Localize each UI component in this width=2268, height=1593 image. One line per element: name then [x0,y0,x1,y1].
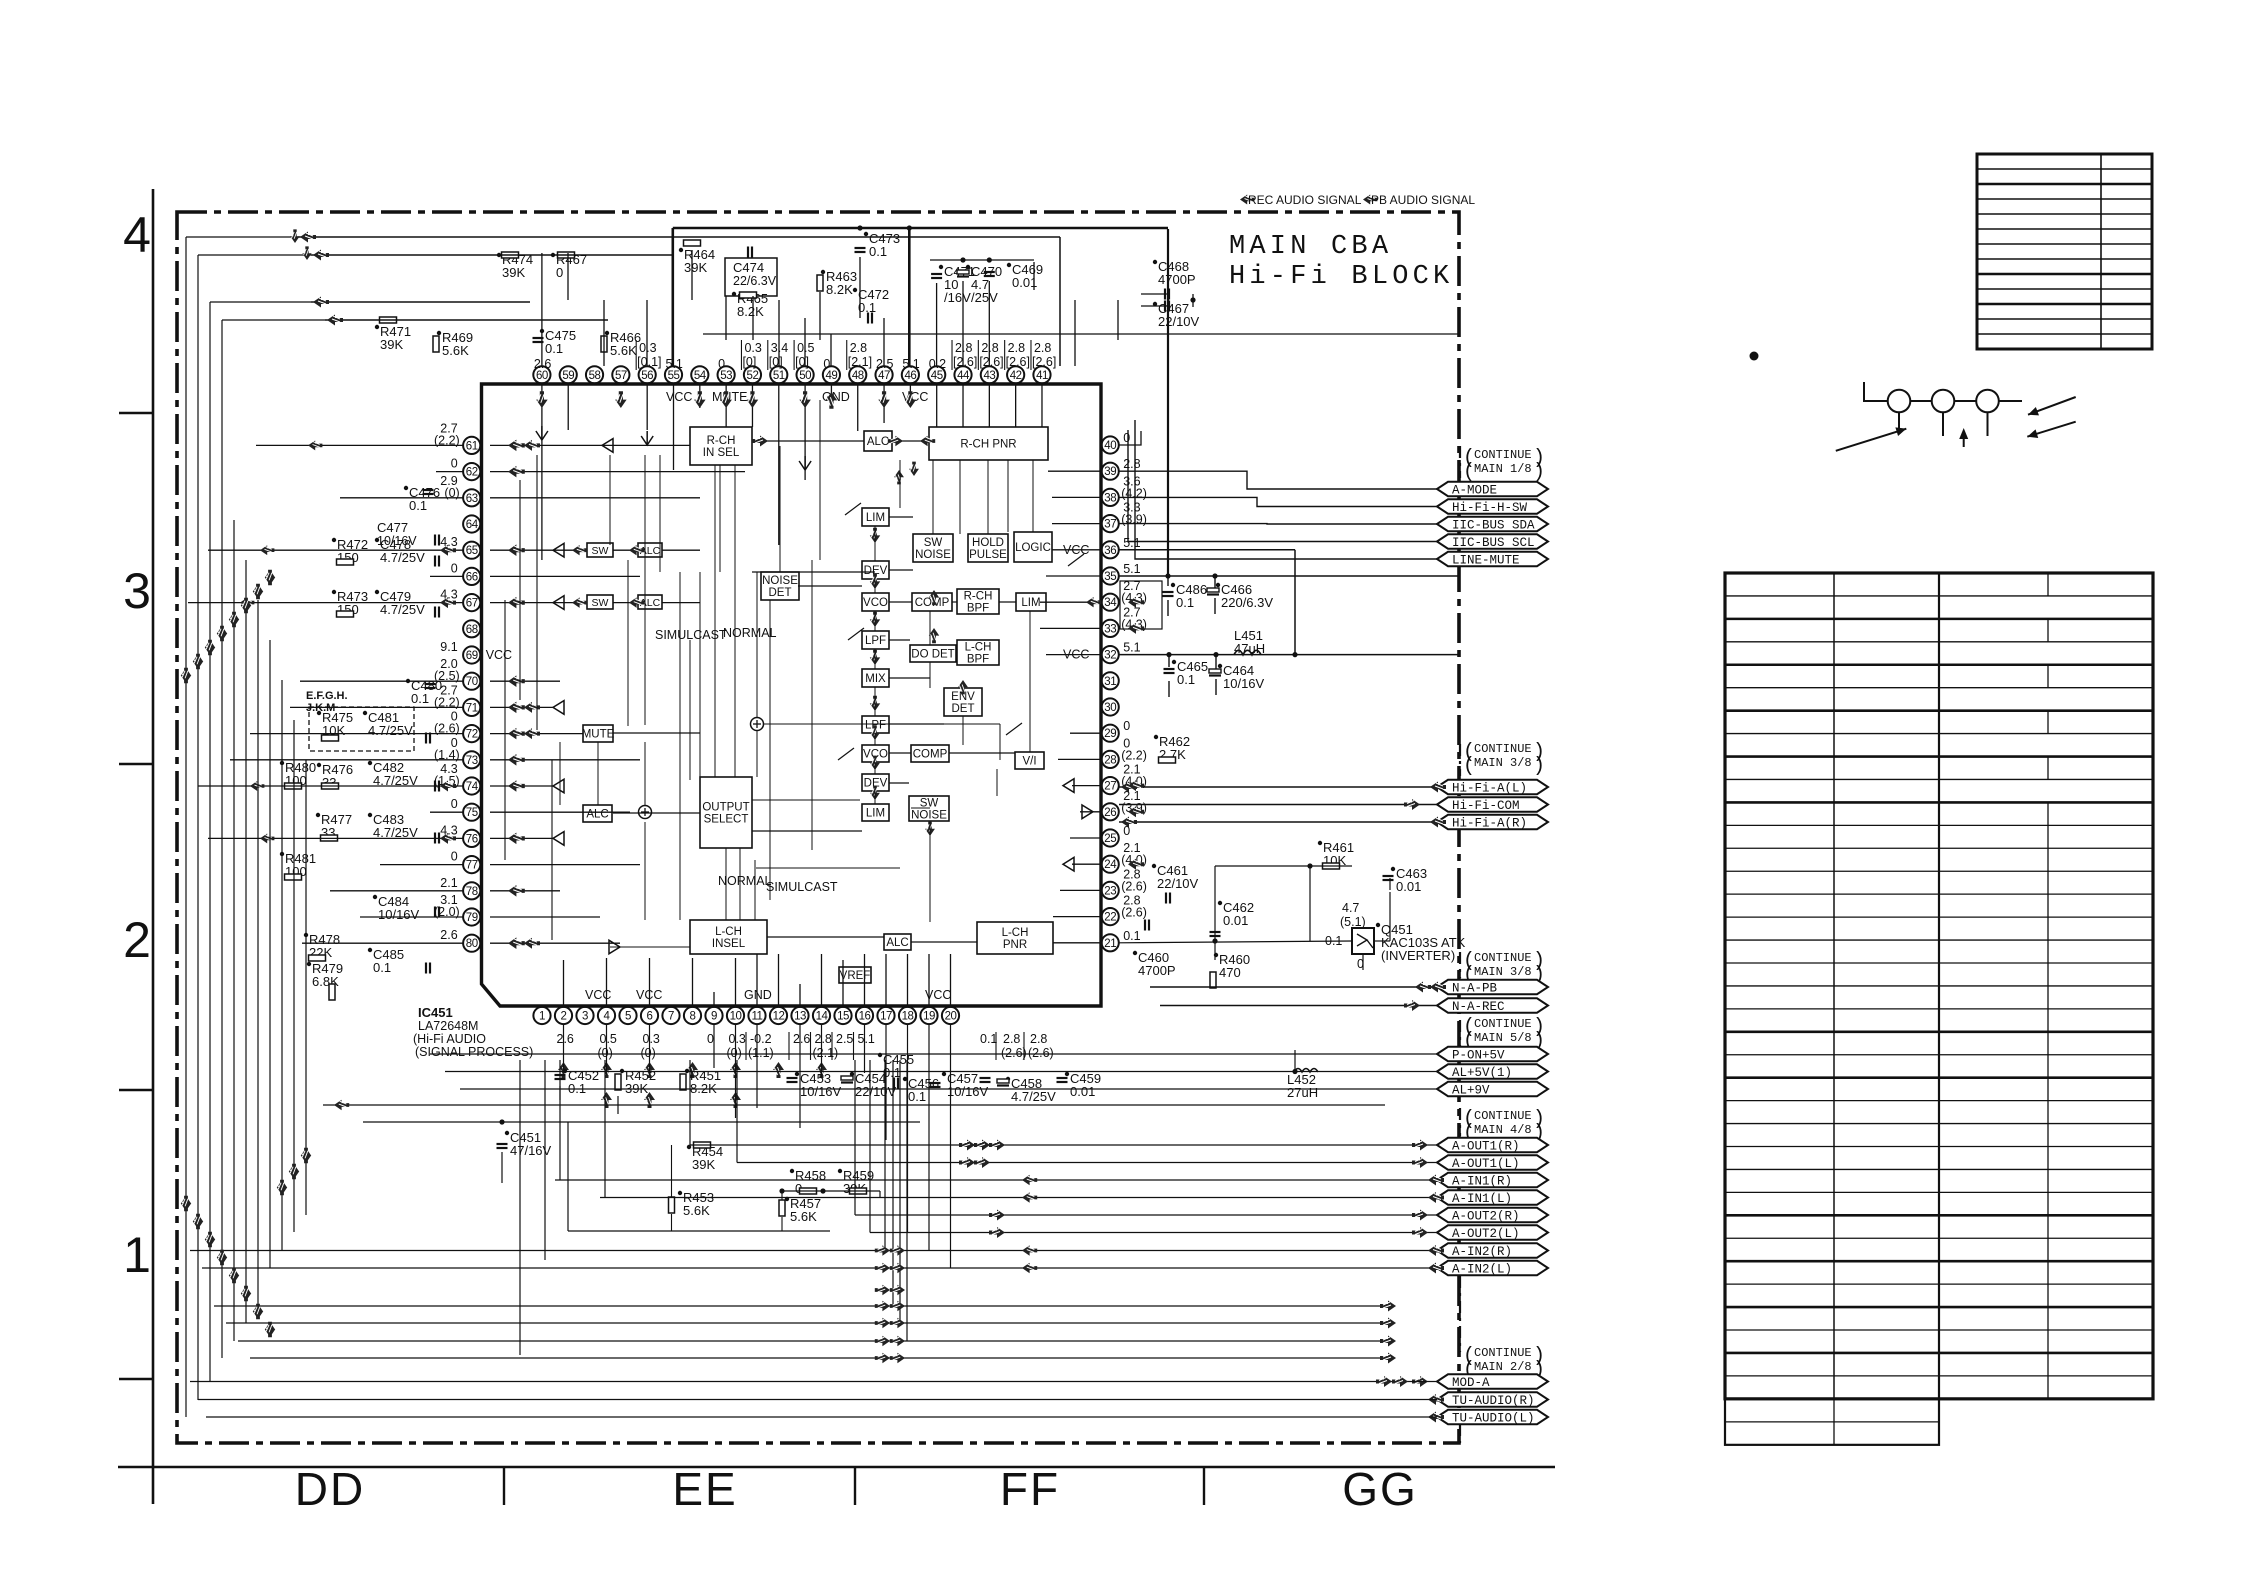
svg-text:0.01: 0.01 [1223,913,1248,928]
svg-text:A-IN2(L): A-IN2(L) [1452,1262,1512,1276]
svg-text:A-OUT2(L): A-OUT2(L) [1452,1227,1520,1241]
svg-text:GND: GND [822,390,850,404]
svg-text:(2.6): (2.6) [1028,1046,1054,1060]
svg-text:(0): (0) [641,1046,656,1060]
svg-text:Hi-Fi-A(R): Hi-Fi-A(R) [1452,816,1527,830]
svg-text:(2.1): (2.1) [813,1046,839,1060]
svg-text:CONTINUE: CONTINUE [1474,1017,1532,1031]
svg-text:L-CH: L-CH [1002,927,1029,939]
svg-text:(2.6): (2.6) [1001,1046,1027,1060]
svg-text:21: 21 [1104,938,1116,950]
svg-text:(INVERTER): (INVERTER) [1381,948,1455,963]
svg-text:0.1: 0.1 [411,691,429,706]
svg-text:35: 35 [1104,571,1116,583]
svg-text:(0): (0) [727,1046,742,1060]
svg-text:R-CH PNR: R-CH PNR [960,439,1016,451]
svg-text:): ) [1533,461,1545,484]
svg-text:13: 13 [794,1011,806,1023]
svg-text:40: 40 [1104,440,1116,452]
svg-text:0.1: 0.1 [1176,595,1194,610]
svg-text:14: 14 [816,1011,829,1023]
svg-text:DD: DD [295,1463,365,1515]
svg-text:OUTPUT: OUTPUT [702,802,749,814]
svg-text:4.7/25V: 4.7/25V [380,550,425,565]
svg-text:A-MODE: A-MODE [1452,483,1497,497]
svg-text:63: 63 [466,493,478,505]
svg-text:LPF: LPF [865,635,886,647]
svg-text:38: 38 [1104,492,1116,504]
svg-text:19: 19 [923,1011,935,1023]
svg-text:2.5: 2.5 [836,1032,853,1046]
svg-text:L-CH: L-CH [715,926,742,938]
svg-text:5.6K: 5.6K [442,343,469,358]
svg-text:62: 62 [466,467,478,479]
svg-text:IIC-BUS SDA: IIC-BUS SDA [1452,518,1535,532]
svg-text:2.6: 2.6 [793,1032,810,1046]
svg-text:4.7/25V: 4.7/25V [368,723,413,738]
svg-text:54: 54 [694,370,707,382]
svg-text:E.F.G.H.: E.F.G.H. [306,690,348,702]
svg-text:BPF: BPF [967,654,989,666]
svg-text:42: 42 [1010,370,1022,382]
svg-text:4: 4 [123,207,151,263]
svg-text:5: 5 [625,1011,631,1023]
svg-text:VCO: VCO [863,597,888,609]
svg-text:2.8: 2.8 [1034,341,1051,355]
svg-text:0.3: 0.3 [643,1032,660,1046]
svg-text:70: 70 [466,676,478,688]
svg-text:COMP: COMP [913,749,948,761]
svg-text:R-CH: R-CH [964,591,993,603]
svg-text:36: 36 [1104,545,1116,557]
svg-text:58: 58 [589,370,601,382]
svg-text:0.1: 0.1 [869,244,887,259]
svg-text:ALC: ALC [886,937,908,949]
svg-text:SW: SW [924,537,943,549]
svg-text:71: 71 [466,702,478,714]
svg-text:0: 0 [556,265,563,280]
svg-text:78: 78 [466,886,478,898]
svg-text:220/6.3V: 220/6.3V [1221,595,1273,610]
svg-text:MAIN 3/8: MAIN 3/8 [1474,756,1532,770]
svg-text:72: 72 [466,729,478,741]
svg-text:22/10V: 22/10V [1157,876,1199,891]
svg-text:FF: FF [1000,1463,1060,1515]
svg-text:39K: 39K [692,1157,715,1172]
svg-text:22/10V: 22/10V [1158,314,1200,329]
svg-text:4700P: 4700P [1158,272,1196,287]
svg-text:IC451: IC451 [418,1005,453,1020]
svg-text:C474: C474 [733,260,764,275]
svg-text:22/6.3V: 22/6.3V [733,274,777,288]
svg-text:52: 52 [747,370,759,382]
svg-text:[0.1]: [0.1] [637,355,661,369]
svg-text:22: 22 [1104,912,1116,924]
svg-text:0.01: 0.01 [1396,879,1421,894]
svg-text:6: 6 [647,1011,653,1023]
svg-text:CONTINUE: CONTINUE [1474,951,1532,965]
svg-text:43: 43 [983,370,995,382]
svg-text:LINE-MUTE: LINE-MUTE [1452,553,1520,567]
svg-text:EE: EE [672,1463,737,1515]
svg-text:48: 48 [852,370,864,382]
svg-text:VREF: VREF [840,970,871,982]
svg-text:5.6K: 5.6K [790,1209,817,1224]
svg-text:BPF: BPF [967,603,989,615]
svg-text:[0]: [0] [795,355,809,369]
svg-text:[2.6]: [2.6] [953,355,977,369]
svg-text:45: 45 [931,370,943,382]
svg-text:53: 53 [720,370,732,382]
svg-text:0.3: 0.3 [639,341,656,355]
svg-text:Hi-Fi BLOCK: Hi-Fi BLOCK [1229,262,1453,292]
svg-text:0.1: 0.1 [1123,929,1140,943]
svg-text:39K: 39K [502,265,525,280]
svg-text:73: 73 [466,755,478,767]
svg-text:LIM: LIM [1021,597,1040,609]
svg-text:0: 0 [823,357,830,371]
svg-text:[2.1]: [2.1] [848,355,872,369]
svg-text:0: 0 [718,357,725,371]
svg-text:0.1: 0.1 [908,1089,926,1104]
svg-text:60: 60 [536,370,548,382]
svg-text:[2.6]: [2.6] [979,355,1003,369]
svg-text:0.2: 0.2 [929,357,946,371]
svg-text:4.7/25V: 4.7/25V [380,602,425,617]
svg-text:A-OUT2(R): A-OUT2(R) [1452,1209,1520,1223]
svg-text:5.1: 5.1 [858,1032,875,1046]
svg-text:20: 20 [945,1011,957,1023]
svg-text:10/16V: 10/16V [947,1084,989,1099]
svg-text:INSEL: INSEL [712,938,746,950]
svg-text:22/10V: 22/10V [855,1084,897,1099]
svg-text:(Hi-Fi AUDIO: (Hi-Fi AUDIO [413,1032,486,1046]
svg-text:65: 65 [466,545,478,557]
svg-text:N-A-REC: N-A-REC [1452,1000,1505,1014]
svg-text:(5.1): (5.1) [1340,915,1366,929]
svg-text:(2.2): (2.2) [1121,748,1147,762]
svg-text:MIX: MIX [865,673,886,685]
svg-text:10/16V: 10/16V [1223,676,1265,691]
svg-text:18: 18 [902,1011,914,1023]
svg-text:0.1: 0.1 [1177,672,1195,687]
svg-text:29: 29 [1104,728,1116,740]
svg-text:LIM: LIM [866,512,885,524]
svg-text:0.1: 0.1 [980,1032,997,1046]
svg-text:2.8: 2.8 [1123,457,1140,471]
svg-text:PULSE: PULSE [969,549,1007,561]
svg-text:LOGIC: LOGIC [1015,542,1051,554]
svg-text:VCC: VCC [902,390,928,404]
svg-text:NORMAL: NORMAL [723,626,777,640]
svg-text:CONTINUE: CONTINUE [1474,742,1532,756]
svg-text:2.8: 2.8 [815,1032,832,1046]
svg-text:(1.1): (1.1) [748,1046,774,1060]
svg-text:MAIN 4/8: MAIN 4/8 [1474,1123,1532,1137]
svg-text:50: 50 [799,370,811,382]
svg-text:DET: DET [769,587,792,599]
svg-text:CONTINUE: CONTINUE [1474,448,1532,462]
svg-text:0: 0 [451,797,458,811]
svg-text:/16V: /16V [944,290,971,305]
svg-text:2.8: 2.8 [1003,1032,1020,1046]
svg-text:76: 76 [466,833,478,845]
svg-text:Hi-Fi-A(L): Hi-Fi-A(L) [1452,781,1527,795]
svg-text:SIMULCAST: SIMULCAST [766,880,838,894]
svg-text:V/I: V/I [1022,756,1036,768]
svg-text:DET: DET [952,703,975,715]
svg-text:0: 0 [451,457,458,471]
svg-text:5.1: 5.1 [1123,562,1140,576]
svg-text:(2.6): (2.6) [1121,879,1147,893]
svg-text:3: 3 [123,563,151,619]
svg-text:64: 64 [466,519,479,531]
svg-text:(3.9): (3.9) [1121,513,1147,527]
svg-text:56: 56 [641,370,653,382]
svg-text:25: 25 [1104,833,1116,845]
svg-text:10: 10 [730,1011,742,1023]
svg-text:26: 26 [1104,807,1116,819]
svg-text:59: 59 [562,370,574,382]
svg-text:ALC: ALC [586,809,608,821]
svg-text:2.6: 2.6 [534,357,551,371]
svg-text:0.5: 0.5 [600,1032,617,1046]
svg-text:A-IN1(R): A-IN1(R) [1452,1174,1512,1188]
svg-text:MAIN CBA: MAIN CBA [1229,232,1392,262]
svg-text:10/16V: 10/16V [378,907,420,922]
svg-text:IIC-BUS SCL: IIC-BUS SCL [1452,536,1535,550]
svg-text:MOD-A: MOD-A [1452,1376,1490,1390]
svg-text:/25V: /25V [971,290,998,305]
svg-text:5.1: 5.1 [902,357,919,371]
svg-text:LA72648M: LA72648M [418,1019,478,1033]
svg-text:9.1: 9.1 [440,640,457,654]
svg-text:67: 67 [466,598,478,610]
svg-text:80: 80 [466,938,478,950]
svg-text:39K: 39K [380,337,403,352]
svg-text:Hi-Fi-COM: Hi-Fi-COM [1452,799,1520,813]
svg-text:9: 9 [711,1011,717,1023]
svg-text:41: 41 [1036,370,1048,382]
svg-text:[2.6]: [2.6] [1006,355,1030,369]
svg-text:PNR: PNR [1003,939,1027,951]
svg-text:44: 44 [957,370,970,382]
svg-text:A-IN2(R): A-IN2(R) [1452,1245,1512,1259]
svg-text:2: 2 [123,912,151,968]
svg-text:16: 16 [859,1011,871,1023]
svg-text:57: 57 [615,370,627,382]
svg-text:3: 3 [582,1011,588,1023]
svg-text:0.5: 0.5 [797,341,814,355]
svg-text:5.1: 5.1 [1123,536,1140,550]
svg-text:A-OUT1(L): A-OUT1(L) [1452,1157,1520,1171]
svg-text:28: 28 [1104,754,1116,766]
svg-text:39K: 39K [684,260,707,275]
svg-text:33: 33 [1104,623,1116,635]
svg-text:0.1: 0.1 [373,960,391,975]
svg-text:C477: C477 [377,520,408,535]
svg-text:NOISE: NOISE [911,810,947,822]
svg-text:A-IN1(L): A-IN1(L) [1452,1192,1512,1206]
svg-text:68: 68 [466,624,478,636]
svg-text:P-ON+5V: P-ON+5V [1452,1048,1505,1062]
svg-text:[0]: [0] [769,355,783,369]
svg-text:ALC: ALC [867,436,889,448]
svg-text:1: 1 [123,1227,151,1283]
svg-text:2.8: 2.8 [981,341,998,355]
svg-text:IN SEL: IN SEL [703,447,740,459]
svg-text:MAIN 1/8: MAIN 1/8 [1474,462,1532,476]
svg-text:0.01: 0.01 [1070,1084,1095,1099]
svg-text:GG: GG [1342,1463,1418,1515]
svg-text:2.6: 2.6 [557,1032,574,1046]
svg-text:0.3: 0.3 [744,341,761,355]
svg-text:2.6: 2.6 [440,928,457,942]
svg-text:AL+5V(1): AL+5V(1) [1452,1066,1512,1080]
svg-text:1: 1 [539,1011,545,1023]
svg-text:(4.2): (4.2) [1121,486,1147,500]
svg-text:79: 79 [466,912,478,924]
svg-text:2.5: 2.5 [876,357,893,371]
svg-text:CONTINUE: CONTINUE [1474,1109,1532,1123]
svg-text:0.1: 0.1 [545,341,563,356]
svg-text:N-A-PB: N-A-PB [1452,981,1498,995]
svg-text:4700P: 4700P [1138,963,1176,978]
svg-text:DO DET: DO DET [911,649,954,661]
svg-text:R-CH: R-CH [707,435,736,447]
svg-text:TU-AUDIO(R): TU-AUDIO(R) [1452,1394,1535,1408]
svg-text:GND: GND [744,988,772,1002]
svg-text:REC AUDIO SIGNAL: REC AUDIO SIGNAL [1248,193,1362,207]
svg-text:MAIN 3/8: MAIN 3/8 [1474,965,1532,979]
svg-text:12: 12 [773,1011,785,1023]
svg-text:8.2K: 8.2K [737,304,764,319]
svg-text:15: 15 [837,1011,849,1023]
svg-text:0: 0 [707,1032,714,1046]
svg-text:34: 34 [1104,597,1117,609]
svg-text:470: 470 [1219,965,1241,980]
svg-text:74: 74 [466,781,479,793]
svg-text:MUTE: MUTE [582,729,615,741]
svg-text:LIM: LIM [866,808,885,820]
svg-text:0: 0 [1123,431,1130,445]
svg-text:(0): (0) [598,1046,613,1060]
svg-text:0: 0 [451,850,458,864]
svg-text:0.3: 0.3 [729,1032,746,1046]
svg-text:32: 32 [1104,650,1116,662]
svg-text:24: 24 [1104,859,1117,871]
svg-text:2.8: 2.8 [955,341,972,355]
svg-text:69: 69 [466,650,478,662]
svg-text:PB AUDIO SIGNAL: PB AUDIO SIGNAL [1371,193,1475,207]
svg-text:A-OUT1(R): A-OUT1(R) [1452,1139,1520,1153]
svg-text:55: 55 [668,370,680,382]
svg-text:49: 49 [826,370,838,382]
svg-text:NOISE: NOISE [762,575,798,587]
svg-text:AL+9V: AL+9V [1452,1083,1490,1097]
svg-text:77: 77 [466,860,478,872]
svg-text:[2.6]: [2.6] [1032,355,1056,369]
svg-text:5.6K: 5.6K [683,1203,710,1218]
svg-text:[0]: [0] [742,355,756,369]
svg-text:66: 66 [466,571,478,583]
svg-text:SW: SW [592,597,609,609]
svg-text:Hi-Fi-H-SW: Hi-Fi-H-SW [1452,501,1528,515]
svg-text:0: 0 [451,561,458,575]
svg-text:MAIN 5/8: MAIN 5/8 [1474,1031,1532,1045]
svg-text:(2.6): (2.6) [1121,906,1147,920]
svg-text:SW: SW [592,545,609,557]
svg-text:2: 2 [561,1011,567,1023]
svg-text:27uH: 27uH [1287,1085,1318,1100]
svg-text:39: 39 [1104,466,1116,478]
svg-text:(SIGNAL PROCESS): (SIGNAL PROCESS) [415,1045,533,1059]
svg-text:11: 11 [752,1011,763,1023]
svg-text:10/16V: 10/16V [800,1084,842,1099]
svg-text:30: 30 [1104,702,1116,714]
svg-text:75: 75 [466,807,478,819]
svg-text:0.1: 0.1 [409,498,427,513]
svg-text:8: 8 [690,1011,696,1023]
svg-text:37: 37 [1104,519,1116,531]
svg-text:23: 23 [1104,885,1116,897]
svg-text:): ) [1533,755,1545,778]
svg-text:L-CH: L-CH [965,642,992,654]
svg-text:2.8: 2.8 [1030,1032,1047,1046]
svg-text:VCC: VCC [666,390,692,404]
svg-text:SELECT: SELECT [704,814,749,826]
svg-text:MAIN 2/8: MAIN 2/8 [1474,1360,1532,1374]
svg-text:-0.2: -0.2 [750,1032,772,1046]
svg-text:2.8: 2.8 [1008,341,1025,355]
svg-text:7: 7 [668,1011,674,1023]
svg-text:0: 0 [1123,824,1130,838]
svg-text:SIMULCAST: SIMULCAST [655,628,727,642]
svg-text:VCC: VCC [486,648,512,662]
svg-text:HOLD: HOLD [972,537,1004,549]
svg-text:4.7: 4.7 [1342,901,1359,915]
svg-text:VCC: VCC [585,988,611,1002]
svg-text:31: 31 [1104,676,1116,688]
svg-text:47: 47 [878,370,890,382]
svg-text:61: 61 [466,440,478,452]
svg-text:17: 17 [880,1011,892,1023]
svg-text:0: 0 [1123,719,1130,733]
svg-text:8.2K: 8.2K [826,282,853,297]
svg-text:51: 51 [773,370,785,382]
svg-text:5.6K: 5.6K [610,343,637,358]
svg-text:CONTINUE: CONTINUE [1474,1346,1532,1360]
svg-text:2.8: 2.8 [850,341,867,355]
svg-text:NOISE: NOISE [915,549,951,561]
svg-text:5.1: 5.1 [1123,641,1140,655]
svg-text:4.7/25V: 4.7/25V [1011,1089,1056,1104]
svg-text:5.1: 5.1 [666,357,683,371]
svg-text:27: 27 [1104,781,1116,793]
svg-text:TU-AUDIO(L): TU-AUDIO(L) [1452,1411,1535,1425]
svg-text:2.1: 2.1 [440,876,457,890]
svg-text:46: 46 [904,370,916,382]
